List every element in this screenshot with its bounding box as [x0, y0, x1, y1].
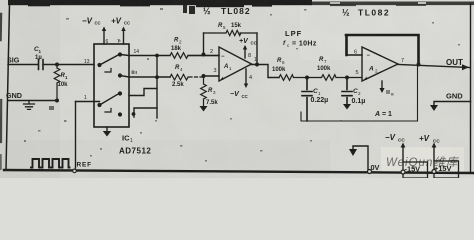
resistor R4 2.5k: [170, 74, 204, 80]
label IC1: [122, 134, 133, 145]
wire IC throw-down row to R4: [120, 76, 170, 78]
label +Vcc supply: [419, 134, 440, 144]
node junction row2: [155, 54, 159, 58]
wire IC pin14 row to R2: [120, 55, 170, 56]
pin 1 label: [84, 95, 87, 101]
node junction R1 top: [55, 63, 59, 67]
arrow out: [462, 64, 469, 70]
box -15V: [403, 162, 428, 178]
border right: [470, 4, 472, 173]
node junction R1 bottom: [55, 99, 59, 103]
square wave REF symbol: [31, 159, 70, 168]
power +Vcc A1 pin8: [244, 47, 246, 58]
label -Vcc supply: [385, 133, 405, 143]
wire 0V: [353, 146, 368, 171]
label LPF: [283, 29, 317, 48]
switch S1 throw up: [118, 52, 122, 56]
wire feedback A2: [346, 35, 419, 65]
switch S2 throw down: [118, 112, 122, 116]
label 0V: [371, 163, 380, 172]
resistor R6 100k: [279, 75, 322, 81]
resistor R3 7.5k vertical: [201, 76, 207, 106]
wire S2 throw down out: [134, 108, 157, 117]
wire -15V supply: [402, 148, 404, 162]
node junction row3: [155, 75, 159, 79]
IC1 AD7512 box: [94, 44, 129, 127]
ground star bottom: [349, 149, 357, 156]
resistor R1 10k vertical: [54, 65, 60, 101]
label half TL082 right: [342, 8, 390, 18]
switch S2 throw up: [118, 91, 122, 95]
ground below IC: [106, 127, 108, 131]
border top dark band: [8, 0, 474, 7]
node junction C2 lpf: [345, 76, 349, 80]
power +Vcc arrow IC pin7: [123, 29, 125, 44]
pin 12 label: [132, 71, 138, 75]
watermark: [381, 147, 464, 174]
wire feedback A1 left vertical: [203, 33, 205, 55]
resistor R2 18k: [170, 53, 219, 59]
paper background: [0, 0, 474, 178]
node GND right: [446, 92, 463, 101]
wire S2 throw up out: [129, 89, 157, 96]
node junction pin3: [202, 74, 206, 78]
label +Vcc IC: [111, 17, 130, 26]
label REF: [77, 162, 92, 169]
label half TL082: [203, 6, 251, 16]
power -Vcc A2 stub: [381, 81, 383, 88]
wire SIG to C1: [8, 64, 38, 66]
switch S2 actuator: [105, 109, 111, 113]
wire pin3: [204, 75, 220, 77]
terminal circle REF: [73, 169, 77, 173]
switch S2 pole: [97, 103, 101, 107]
label -Vcc IC: [82, 17, 101, 26]
terminal circle +15V: [432, 170, 436, 174]
pin 7 label: [117, 39, 120, 45]
wire C1 to IC pin13: [43, 64, 94, 66]
switch S1 arm: [100, 55, 119, 65]
label A=1: [374, 111, 392, 118]
node GND input: [6, 91, 22, 100]
box +15V: [434, 161, 459, 178]
node SIG input: [7, 56, 20, 65]
scan speckles: [24, 8, 460, 162]
noise blob top: [183, 5, 195, 14]
ground C2: [343, 104, 351, 110]
wire REF vertical: [75, 102, 77, 169]
label AD7512: [119, 147, 151, 156]
power -Vcc A1 pin4: [245, 69, 247, 85]
wire A1 output: [252, 65, 280, 78]
power -Vcc arrow IC pin6: [103, 29, 105, 44]
resistor R5 15k feedback: [204, 30, 258, 35]
wire output A2 to OUT: [398, 65, 470, 68]
wire control REF into IC: [76, 101, 100, 103]
pin 6 label: [106, 39, 109, 45]
wire GND right: [434, 102, 471, 106]
capacitor C2 lpf 0.1u: [342, 78, 352, 105]
node junction output A1: [255, 63, 259, 67]
scan edge sliver: [0, 14, 2, 40]
node junction S2 wire: [132, 112, 136, 116]
op-amp A1: [219, 47, 252, 81]
resistor R7 100k: [322, 75, 363, 81]
terminal circle -15V: [401, 170, 405, 174]
ground R3: [200, 106, 208, 112]
switch S1 pole: [97, 63, 101, 67]
border bottom: [4, 170, 474, 173]
wire feedback A1 right vertical: [256, 33, 258, 65]
terminal circle 0V: [368, 170, 372, 174]
switch S1 throw down: [118, 73, 122, 77]
op-amp A2: [362, 47, 398, 81]
label OUT: [446, 58, 463, 67]
wire +15V supply: [433, 148, 435, 161]
node junction feedback A1: [202, 53, 206, 57]
wire vertical connector: [156, 56, 158, 119]
node junction output A2: [417, 63, 421, 67]
switch S1 actuator: [105, 69, 111, 73]
capacitor C1 lpf 0.22u: [302, 78, 312, 122]
switch S2 arm: [100, 94, 119, 105]
border left: [6, 4, 10, 170]
node junction C1 lpf: [305, 76, 309, 80]
smudge near A2 pin4: [386, 90, 394, 96]
wire pin2: [188, 55, 219, 57]
ground input gnd symbol: [24, 101, 35, 110]
LPF enclosure box: [301, 65, 418, 122]
ground right: [430, 105, 438, 111]
wire GND row: [8, 100, 57, 102]
capacitor C1 1u: [39, 60, 44, 70]
pin 14 label: [134, 49, 140, 55]
wire pin6 A2: [347, 54, 363, 56]
pin 13 label: [84, 59, 90, 65]
